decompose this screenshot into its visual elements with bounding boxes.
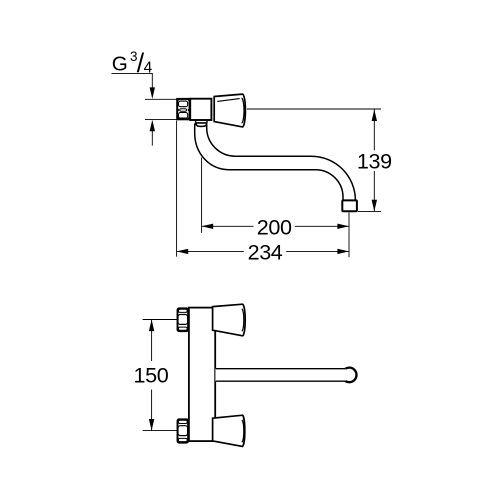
svg-text:200: 200	[257, 215, 292, 240]
neck stubs	[196, 121, 207, 123]
faucet body (top view)	[190, 99, 211, 120]
leader arrow down (to thread top line)	[150, 87, 155, 99]
leader line from label	[112, 73, 153, 88]
svg-text:139: 139	[357, 149, 392, 174]
tube end cap	[345, 368, 356, 383]
handle inner top line	[217, 99, 239, 102]
nut thread band B	[179, 113, 188, 119]
dim line 150	[151, 320, 153, 431]
arrow up with tail (to thread bottom line)	[150, 120, 155, 132]
nut corner chamfers	[177, 99, 180, 102]
nut waist wedges	[178, 108, 180, 112]
extension line under outlet (for 200/234)	[348, 212, 350, 257]
extension line left of 234 (from nut)	[176, 121, 178, 257]
top handle inner cap arc	[242, 309, 244, 331]
bottom nut (front view)	[178, 419, 189, 442]
centerline right of handle (top ext of 139)	[247, 108, 381, 110]
nut middle band	[180, 109, 187, 112]
centerline to top nut	[143, 319, 177, 321]
centerline to bottom nut	[143, 430, 177, 432]
dim line 200	[202, 225, 349, 227]
spout outer line (left/bottom)	[195, 123, 343, 200]
svg-text:G: G	[112, 52, 128, 75]
dim line 234	[177, 250, 349, 252]
handle (top view)	[214, 94, 245, 127]
svg-text:150: 150	[133, 363, 168, 388]
wall tube	[215, 369, 344, 382]
thread extension line top	[145, 98, 178, 100]
top nut (front view)	[178, 308, 189, 331]
dim line 139	[373, 110, 375, 212]
bottom handle (front view)	[213, 415, 245, 446]
label G 3/4	[112, 48, 153, 78]
thread extension line bottom	[145, 118, 178, 120]
neck collar	[196, 123, 207, 127]
extension line from spout axis (for 200)	[201, 158, 203, 233]
nut thread band A	[179, 101, 188, 107]
aerator tip	[342, 200, 357, 211]
svg-text:234: 234	[248, 240, 283, 265]
handle inner cap arc	[242, 98, 245, 123]
svg-text:4: 4	[144, 60, 153, 77]
spout inner line (right/top)	[207, 123, 356, 200]
extension right of outlet (bottom ext of 139)	[358, 210, 381, 212]
faucet body slab (front view)	[189, 308, 215, 442]
bottom handle inner cap arc	[242, 420, 244, 442]
nut G3/4 outer (top view)	[177, 99, 189, 119]
top handle (front view)	[213, 304, 246, 336]
